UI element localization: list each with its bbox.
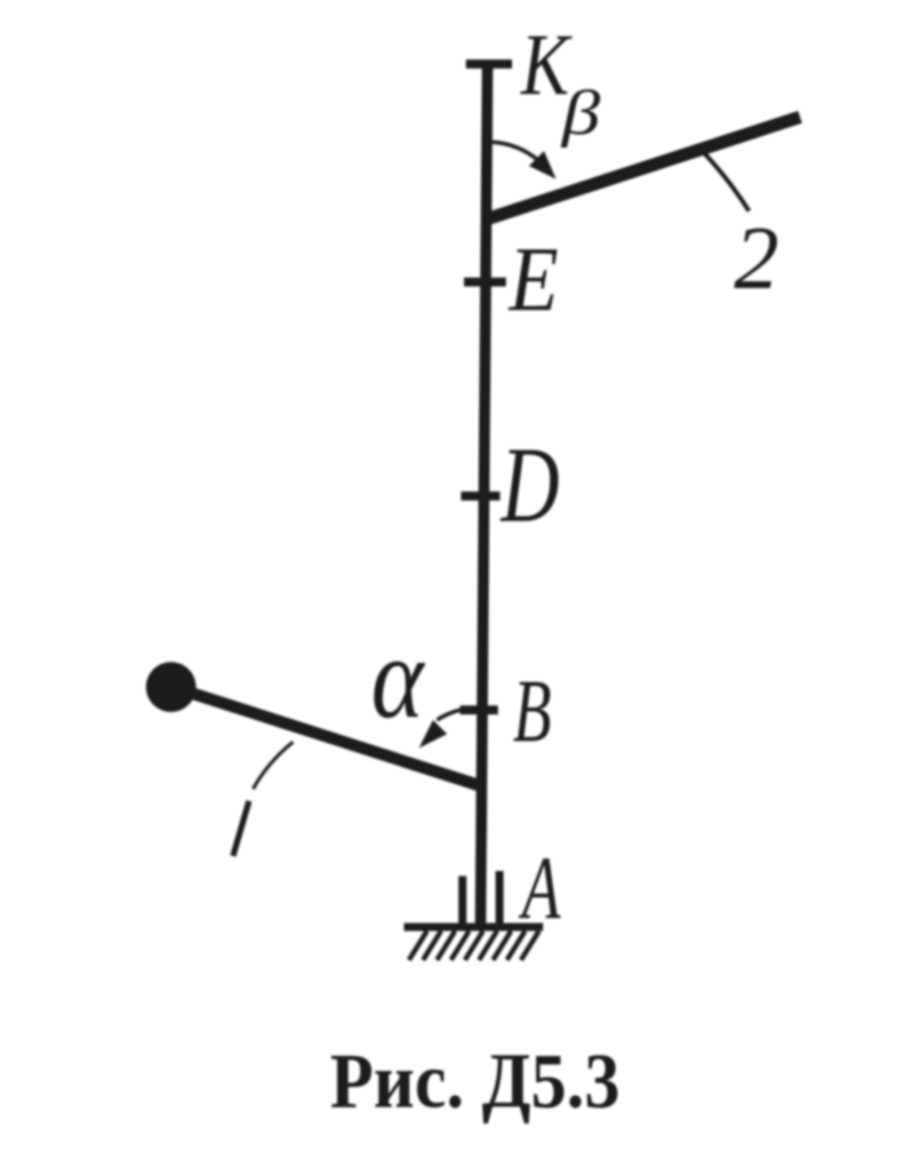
svg-text:E: E	[507, 228, 558, 330]
ground line	[404, 923, 543, 931]
node E label	[507, 228, 558, 330]
svg-text:A: A	[518, 838, 561, 938]
angle alpha label	[371, 611, 426, 742]
rod 2	[484, 117, 800, 220]
node A label	[518, 838, 561, 938]
node D label	[499, 425, 559, 545]
svg-text:2: 2	[734, 209, 779, 308]
top cap at K	[466, 60, 512, 69]
tick at node B	[460, 706, 498, 715]
svg-text:B: B	[513, 661, 551, 761]
angle beta arc with arrow	[491, 142, 556, 179]
rod 2 label "2"	[734, 209, 779, 308]
fixed support clamp left bar	[459, 876, 467, 924]
angle beta label	[560, 78, 601, 149]
svg-text:α: α	[371, 611, 426, 742]
rod AK (vertical rod)	[481, 62, 488, 927]
tick at node D	[461, 492, 500, 501]
rod 1 label "1"	[233, 801, 249, 856]
ball at end of rod 1	[146, 662, 196, 712]
svg-text:β: β	[560, 78, 601, 149]
fixed support clamp right bar	[496, 871, 504, 924]
caption	[330, 1037, 620, 1124]
node B label	[513, 661, 551, 761]
leader line to rod 2 label	[703, 152, 749, 211]
svg-text:Рис. Д5.3: Рис. Д5.3	[330, 1037, 620, 1124]
svg-text:D: D	[499, 425, 559, 545]
angle alpha arc with arrow	[419, 708, 482, 748]
leader line to rod 1 label	[253, 742, 293, 789]
node K label	[520, 16, 573, 113]
ground hatching	[409, 931, 539, 960]
tick at node E	[464, 278, 506, 287]
rod 1	[188, 692, 481, 786]
